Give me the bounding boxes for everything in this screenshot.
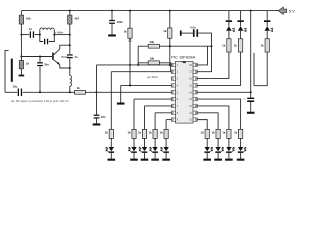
junction (39, 56, 41, 58)
wire (138, 63, 148, 65)
power flag 5V (278, 7, 286, 14)
svg-text:10k: 10k (149, 40, 154, 44)
wire: pin 13 to LED branch (197, 99, 240, 129)
wire (69, 86, 71, 92)
junction (69, 91, 71, 93)
LED D6 (139, 147, 147, 153)
LED D4 (106, 147, 114, 153)
wire: pin 7 net (145, 105, 172, 107)
wire: pin 11 to LED branch (197, 113, 218, 130)
resistor of LED D1 branch (222, 39, 231, 52)
wire to pin (197, 52, 229, 79)
wire (20, 35, 22, 57)
resistor R4 1k (75, 86, 86, 94)
LED D10 (215, 147, 223, 153)
junction (129, 84, 131, 86)
svg-text:1n: 1n (29, 27, 32, 31)
wire (154, 153, 156, 159)
resonator X1 (180, 29, 198, 37)
capacitor C5 (37, 62, 49, 66)
junction (96, 91, 98, 93)
wire: collector (60, 45, 70, 49)
junction (169, 64, 171, 66)
wire: base (21, 56, 52, 58)
wire: pin 9 net (166, 119, 171, 121)
junction (129, 84, 131, 86)
ground (203, 159, 211, 161)
wire: resonator to pin 17 (197, 33, 211, 72)
junction (169, 10, 171, 12)
wire (266, 31, 268, 39)
wire: pin 2 net (111, 71, 171, 73)
wire (240, 153, 242, 159)
capacitor C4 (67, 54, 78, 59)
wire: pin 1 net (97, 64, 172, 66)
junction (169, 45, 171, 47)
wire (165, 138, 167, 147)
wire: Vdd drop (250, 11, 252, 98)
wire: pin 6 net (134, 98, 171, 100)
resistor R7 10k (148, 40, 159, 48)
wire (35, 34, 40, 36)
resistor R13 1k (149, 129, 158, 138)
svg-text:x 4MHz: x 4MHz (55, 31, 64, 34)
wire (228, 138, 230, 147)
wire (133, 138, 135, 147)
wire (217, 153, 219, 159)
ground (108, 159, 116, 161)
wire: emitter (60, 65, 70, 68)
svg-text:1k: 1k (26, 62, 30, 66)
LED D2 branch (237, 20, 246, 31)
wire to pin (197, 52, 240, 85)
ground (237, 159, 245, 161)
wire (169, 38, 171, 65)
LC tank L2 coil top (40, 28, 54, 30)
junction (20, 34, 22, 36)
wire (182, 32, 193, 34)
wire (228, 153, 230, 159)
svg-text:1k: 1k (149, 131, 153, 135)
inductor L1 (70, 76, 72, 87)
wire (138, 46, 148, 65)
ground (214, 159, 222, 161)
wire: pin 12 to LED branch (197, 106, 229, 129)
junction (137, 64, 139, 66)
svg-text:1k: 1k (127, 131, 131, 135)
svg-text:Δp: RF napon na rezistorju 1 k: Δp: RF napon na rezistorju 1 kΩ je pribl… (11, 99, 69, 103)
resistor R6 1k (163, 28, 172, 38)
resistor R11 1k (127, 129, 136, 138)
svg-text:10n: 10n (44, 62, 49, 66)
svg-text:ser. izhod: ser. izhod (147, 76, 158, 79)
wire: bottom rail left (5, 91, 17, 93)
junction (69, 10, 71, 12)
resistor R14 1k (160, 129, 169, 138)
wire (240, 138, 242, 147)
resistor R18 1k (234, 129, 243, 138)
svg-text:BC547: BC547 (62, 57, 70, 59)
wire: pin 10 to LED branch (197, 120, 207, 130)
svg-text:1k: 1k (105, 131, 109, 135)
junction (69, 34, 71, 36)
wire (110, 153, 112, 159)
svg-text:10u: 10u (13, 85, 18, 89)
wire (133, 153, 135, 159)
ground (162, 159, 170, 161)
svg-text:10k: 10k (149, 57, 154, 61)
wire (20, 24, 22, 35)
node terminal (129, 40, 131, 42)
wire (111, 11, 113, 20)
wire (169, 11, 171, 28)
svg-text:4k7: 4k7 (74, 16, 79, 20)
wire (253, 53, 255, 86)
resistor R17 1k (222, 129, 231, 138)
wire (111, 24, 113, 35)
svg-text:10n: 10n (101, 115, 106, 119)
wire (144, 138, 146, 147)
LED D3 branch (264, 20, 273, 31)
wire: tank right (49, 30, 54, 42)
wire (165, 120, 167, 130)
wire (39, 66, 41, 92)
resistor R5 1k (123, 28, 132, 38)
wire (120, 85, 122, 102)
capacitor C7 10n (94, 115, 106, 119)
microphone element (11, 59, 13, 82)
resistor R2 4k7 (68, 15, 80, 24)
junction (53, 34, 55, 36)
resistor R8 10k (148, 57, 159, 65)
svg-text:1k: 1k (234, 131, 238, 135)
svg-text:1k: 1k (123, 29, 127, 33)
wire (154, 113, 156, 130)
ground (108, 34, 116, 36)
LED D5 (129, 147, 137, 153)
svg-text:1k: 1k (234, 44, 238, 48)
ground (93, 123, 101, 125)
resistor for LED D3 (260, 39, 269, 52)
ground (225, 159, 233, 161)
svg-text:1n: 1n (74, 55, 77, 59)
junction (39, 34, 41, 36)
wire (54, 34, 70, 36)
svg-text:10k: 10k (26, 16, 31, 20)
ground (247, 112, 255, 114)
svg-text:1k: 1k (212, 131, 216, 135)
resistor R3 1k (19, 60, 29, 68)
capacitor C6 10u (13, 85, 22, 96)
LED D12 (238, 147, 246, 153)
resistor R15 1k (201, 129, 210, 138)
svg-text:1k: 1k (77, 86, 81, 90)
resistor R10 1k (105, 129, 114, 138)
svg-text:1k: 1k (160, 131, 164, 135)
wire (110, 72, 112, 130)
junction (129, 10, 131, 12)
transistor Q1 BC547 (52, 49, 60, 65)
wire (129, 11, 131, 29)
wire (144, 153, 146, 159)
resistor of LED D2 branch (234, 39, 243, 52)
junction (169, 45, 171, 47)
wire: pin 18 net (197, 46, 207, 65)
wire: pin 8 net (155, 112, 171, 114)
wire (228, 31, 230, 39)
wire (20, 69, 22, 75)
wire (266, 11, 268, 21)
wire (110, 138, 112, 147)
wire: R8 to pin 2 (159, 63, 171, 72)
wire (20, 11, 22, 16)
junction (39, 91, 41, 93)
wire (69, 11, 71, 16)
ground (117, 103, 125, 105)
svg-text:1k: 1k (138, 131, 142, 135)
wire (165, 153, 167, 159)
junction (250, 91, 252, 93)
wire (217, 138, 219, 147)
junction (211, 45, 213, 47)
wire (21, 34, 29, 36)
junction (111, 10, 113, 12)
wire (96, 65, 98, 115)
wire (69, 24, 71, 54)
wire (69, 59, 71, 76)
wire (206, 153, 208, 159)
svg-text:1k: 1k (201, 131, 205, 135)
wire (250, 102, 252, 112)
resistor R1 10k (19, 15, 31, 24)
LED D8 (161, 147, 169, 153)
svg-text:5 V: 5 V (289, 9, 295, 14)
svg-text:PIC 16F628A: PIC 16F628A (171, 54, 195, 59)
wire (144, 106, 146, 129)
wire (20, 57, 22, 61)
svg-text:100n: 100n (117, 20, 123, 24)
wire: left loop (5, 51, 9, 93)
svg-text:4MHz: 4MHz (190, 26, 197, 29)
wire (240, 11, 242, 21)
ground (151, 159, 159, 161)
LED D11 (226, 147, 234, 153)
wire (96, 119, 98, 124)
junction (129, 64, 131, 66)
capacitor C1 (29, 27, 34, 38)
wire: bottom rail to pin 5 (23, 91, 172, 93)
junction (250, 10, 252, 12)
capacitor C3 in tank (44, 39, 48, 45)
wire (240, 31, 242, 39)
junction (69, 44, 71, 46)
wire (129, 38, 131, 85)
wire (254, 52, 267, 86)
LED D7 (150, 147, 158, 153)
wire (228, 11, 230, 21)
LED D1 branch (226, 20, 235, 31)
capacitor C8 electrolytic (243, 96, 254, 102)
svg-text:+: + (243, 96, 245, 100)
junction (69, 67, 71, 69)
capacitor C2 100n (109, 20, 123, 24)
LED D9 (204, 147, 212, 153)
wire: tank left/bottom (40, 30, 43, 42)
ground (130, 159, 138, 161)
wire (154, 138, 156, 147)
wire: +5V top rail (21, 10, 278, 12)
svg-text:1k: 1k (260, 44, 264, 48)
resistor R16 1k (212, 129, 221, 138)
svg-text:1k: 1k (222, 44, 226, 48)
wire (39, 57, 41, 63)
wire (206, 138, 208, 147)
wire (133, 99, 135, 129)
IC U1 PIC 16F628A DIP-18 (171, 61, 197, 123)
wire: R7 to pin 18/17 (159, 45, 211, 47)
resistor R12 1k (138, 129, 147, 138)
ground (19, 75, 25, 77)
svg-text:1k: 1k (222, 131, 226, 135)
junction (20, 56, 22, 58)
svg-text:1k: 1k (163, 29, 167, 33)
wire: pin 4 net (121, 84, 172, 86)
ground (141, 159, 149, 161)
wire: pin 14 Vdd (197, 91, 250, 93)
